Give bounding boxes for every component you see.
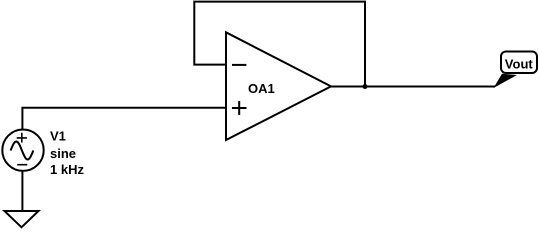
svg-text:1 kHz: 1 kHz <box>50 162 84 177</box>
svg-text:OA1: OA1 <box>248 81 275 96</box>
svg-text:sine: sine <box>50 146 76 161</box>
svg-text:V1: V1 <box>50 129 66 144</box>
svg-text:Vout: Vout <box>505 56 534 71</box>
